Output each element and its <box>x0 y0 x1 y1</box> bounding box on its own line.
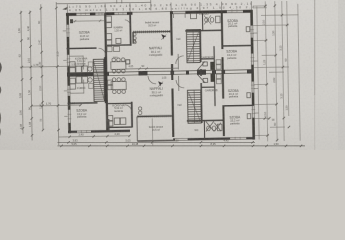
wc fixtures bottom right <box>206 121 222 131</box>
paper background <box>0 0 345 150</box>
room label gardrob bottom <box>205 89 218 92</box>
right margin chain x266.5 <box>265 1 267 141</box>
interior wall: fürdő north bottom <box>187 119 223 122</box>
left margin tick marks <box>21 65 85 108</box>
column at dining edge <box>126 60 130 64</box>
north/compass mark bottom unit <box>158 81 163 87</box>
left margin h-dim line mid <box>20 66 83 67</box>
window W2 in top wall <box>95 12 105 15</box>
room label konyha bottom <box>112 103 124 113</box>
interior wall: between szoba rooms top <box>222 45 253 48</box>
window W7 west wall <box>68 110 71 123</box>
wall stub nappali west below terrace <box>132 32 134 44</box>
interior wall: nappali east top <box>171 12 172 71</box>
window W6 west wall <box>67 86 70 96</box>
left margin chain x42 <box>41 4 43 130</box>
hall door frame lines <box>177 54 180 91</box>
interior dim text bottom nappali <box>162 76 167 79</box>
left margin extra ticks <box>20 7 60 132</box>
interior dim line szoba top-left <box>70 19 104 22</box>
left edge dark smudge 1 <box>0 62 2 73</box>
interior wall: middle column bottom low <box>108 119 110 130</box>
interior wall: middle column east side top <box>129 13 132 46</box>
window W4 west wall <box>66 25 69 37</box>
window W10 east wall <box>251 82 254 93</box>
kitchen counter top unit <box>70 61 93 72</box>
left edge dark smudge 3 <box>0 112 1 124</box>
circles bottom terrace edge <box>138 107 142 115</box>
top margin dimension text row 2 <box>69 5 254 12</box>
washbasins below fürdő top <box>107 40 136 52</box>
door swing arc szoba top-left <box>99 48 106 55</box>
right margin chain x283 <box>282 1 284 141</box>
interior wall: wc partition top <box>201 11 203 30</box>
top margin dim line <box>56 2 150 4</box>
window W9 east wall <box>251 54 254 65</box>
staircase wall central east <box>104 57 107 103</box>
staircase central (basement stairs, back-to-back) <box>93 59 104 101</box>
radiator under west window top <box>70 19 73 23</box>
closet rects bottom <box>216 74 221 84</box>
gardrob north wall top <box>201 58 215 60</box>
tick cluster bottom right connector <box>264 117 271 120</box>
entrance door bottom wall <box>175 138 187 141</box>
staircase bottom unit (attic stairs) <box>187 90 201 123</box>
door gap stairs bottom <box>200 76 202 83</box>
right margin chain x288 <box>287 1 289 116</box>
flue boxes middle column bottom <box>108 80 113 90</box>
staircase top unit (attic stairs) <box>186 30 200 63</box>
interior wall: konyha south bottom <box>107 102 132 104</box>
interior wall: szoba/konyha top-left <box>67 47 97 50</box>
door swing arc hall bottom <box>176 80 184 88</box>
room label fürdő middle top <box>114 26 124 33</box>
interior dim line top nappali <box>126 65 178 71</box>
room label szoba bottom-right 1 <box>228 89 240 99</box>
interior wall: fürdő south top <box>185 29 221 32</box>
dining table top unit <box>111 58 126 73</box>
coat hook circles terrace edge <box>133 33 136 44</box>
room label nappali top <box>149 46 163 57</box>
top margin arrow <box>63 7 67 9</box>
room label gardrob top <box>201 56 214 59</box>
interior wall: between szoba rooms bottom <box>223 104 254 107</box>
kitchen counter front edge top <box>69 56 83 70</box>
outer wall west <box>68 13 70 133</box>
door swing arc nappali bottom <box>148 76 156 84</box>
bottom chain numbers <box>71 138 279 146</box>
bottom margin dim chain 2 (unrotated) <box>58 145 306 147</box>
room label fürdő bottom-left <box>77 87 86 90</box>
window W12 south-west wall <box>77 130 91 133</box>
right margin chain x299 <box>298 4 300 141</box>
door swing arc kamra <box>125 20 131 26</box>
bathroom fixtures top middle column <box>106 16 121 46</box>
interior wall: szoba/konyha bottom-left <box>67 102 97 105</box>
top margin dimension text row 1 <box>69 2 252 9</box>
outer wall top (west part, masonry) <box>66 11 252 14</box>
room label fürdő top <box>199 11 208 16</box>
scan grain overlay <box>0 0 345 150</box>
interior wall: middle column east side bottom <box>131 102 133 128</box>
window mullion ticks <box>66 9 256 143</box>
door swing arc konyha bottom <box>125 105 132 112</box>
kitchen counter front edge bottom <box>70 80 84 94</box>
door gap szoba top-right <box>221 49 224 57</box>
bottom margin dim line left part <box>59 136 130 137</box>
room label nappali bottom <box>150 87 164 98</box>
interior wall: szoba column west top <box>222 11 223 70</box>
left margin lower ticks <box>22 127 45 137</box>
room label szoba top-right 2 <box>226 49 238 60</box>
right margin connector rows <box>253 5 267 7</box>
room label mosdó bottom <box>191 120 200 132</box>
interior wall: left column east side top <box>105 13 106 72</box>
room label fedett terasz bottom <box>149 125 164 132</box>
party wall poché segments <box>67 69 253 77</box>
terrace glazed wall bottom unit <box>137 115 173 118</box>
interior wall: stairs east top <box>199 29 202 70</box>
kitchen counter bottom unit <box>70 76 93 89</box>
left margin chain x31 <box>30 10 32 140</box>
room label szoba bottom-left <box>76 108 88 118</box>
left margin chain x57.5 <box>56 2 58 145</box>
window sill stubs west <box>63 31 68 117</box>
konyha bottom south wall <box>107 126 132 128</box>
door swing arc hall top <box>176 56 184 64</box>
room label hall bottom <box>178 104 182 107</box>
dining table bottom unit <box>111 78 126 94</box>
right edge shading <box>338 0 345 150</box>
right margin chain x276 <box>275 1 277 141</box>
bottom terrace outline <box>137 116 174 141</box>
room label hall top <box>177 38 181 41</box>
outer wall south-east part <box>173 138 254 139</box>
right margin chain x258 <box>253 1 301 142</box>
door gap hall bottom <box>171 80 174 89</box>
roof edge over top terrace <box>132 11 169 14</box>
interior wall: gardrob east top <box>213 46 215 70</box>
door gap hall top <box>171 55 174 64</box>
interior wall: szoba column west bottom <box>223 71 224 136</box>
interior wall: nappali east bottom <box>172 72 173 137</box>
room label szoba bottom-right 2 <box>229 115 241 125</box>
bottom margin dim chain 1 (unrotated) <box>58 138 306 147</box>
kitchen cabinets extra bottom <box>89 83 94 88</box>
door leaves at party wall centre <box>197 61 207 83</box>
terrace glazed wall top unit <box>133 30 171 33</box>
bottom-left part ticks <box>68 135 130 138</box>
window W8 east wall <box>250 26 253 38</box>
north/compass mark top unit <box>161 34 166 40</box>
blank sheet strip right of fold <box>316 0 345 150</box>
shower/bath cluster at party wall <box>210 62 215 82</box>
gardrob south wall bottom <box>201 86 215 88</box>
window W1 in top wall <box>76 13 90 16</box>
window W13 south-east wall <box>230 137 246 140</box>
left edge dark smudge 2 <box>0 86 1 94</box>
window sill stubs east <box>253 33 258 113</box>
window W5 west wall <box>67 55 70 66</box>
interior wall: stairs east bottom <box>200 72 203 123</box>
window W11 east wall <box>252 106 255 118</box>
witness line terrace centre <box>151 118 153 145</box>
interior wall: wc partition bottom <box>203 121 205 139</box>
closet rects top <box>216 60 221 70</box>
interior wall: gardrob east bottom <box>213 71 216 106</box>
room label szoba top-left <box>79 30 91 41</box>
outer wall south-west part <box>68 131 130 132</box>
top margin dim ticks vertical <box>67 0 251 13</box>
window W2b in top wall <box>114 12 127 15</box>
interior wall: under fürdő top <box>105 44 130 46</box>
interior wall: left column east side bottom <box>106 73 107 131</box>
left margin h-dim line lower <box>32 104 81 107</box>
radiator szoba top-right <box>246 27 250 32</box>
party wall between units (double line) <box>67 70 253 76</box>
door gap stairs top <box>200 62 202 69</box>
room label szoba top-right 1 <box>227 19 239 28</box>
room label fedett terasz top <box>145 20 160 27</box>
bathroom fixtures bottom middle column <box>107 115 126 126</box>
entrance door top wall <box>173 11 186 18</box>
door gap szoba bottom-right <box>222 99 225 106</box>
right margin rotated numbers <box>262 19 289 126</box>
radiator szoba bottom-right <box>247 93 251 98</box>
outer wall east <box>251 10 253 140</box>
window W3 in top wall (szoba) <box>227 10 243 13</box>
wc fixtures top right <box>190 13 220 24</box>
kitchen cabinets extra top <box>88 62 93 67</box>
room label konyha top-left <box>75 56 87 65</box>
bottom chain tick marks <box>60 141 302 147</box>
left margin chain x22 <box>21 11 23 134</box>
door leaf X top bathroom <box>204 15 211 24</box>
right margin tick marks <box>264 4 290 141</box>
left edge dark smudge 4 <box>0 128 2 136</box>
left margin rotated numbers <box>17 20 78 130</box>
sheet fold line <box>314 0 315 95</box>
